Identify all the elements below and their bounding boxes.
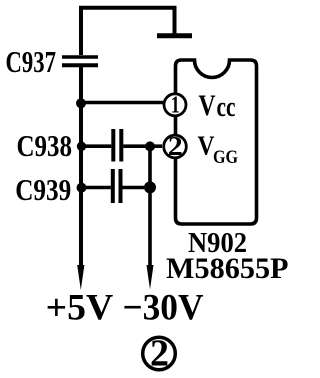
node: junction rail / C938 xyxy=(77,142,86,151)
svg-text:cc: cc xyxy=(217,91,236,123)
wire: -30V rail from C938 junction down to arrow xyxy=(148,146,152,266)
pin 2 circle xyxy=(164,135,187,158)
node: junction C939 wire / -30V rail xyxy=(144,181,156,193)
capacitor C938 xyxy=(81,129,162,162)
svg-text:GG: GG xyxy=(213,147,238,168)
svg-text:2: 2 xyxy=(168,131,183,161)
svg-text:−30V: −30V xyxy=(123,287,204,328)
svg-text:C939: C939 xyxy=(15,172,71,207)
label Vcc xyxy=(199,89,236,123)
svg-text:C938: C938 xyxy=(17,128,73,163)
svg-text:M58655P: M58655P xyxy=(166,252,289,285)
IC U1 N902 outline with notch xyxy=(176,60,257,224)
figure number circle 2 xyxy=(143,333,176,375)
node: junction of rail and Vcc wire xyxy=(76,98,86,108)
svg-text:C937: C937 xyxy=(6,44,57,79)
svg-text:V: V xyxy=(199,89,216,122)
capacitor C937 xyxy=(62,57,98,65)
arrow to +5V xyxy=(77,265,84,290)
svg-text:1: 1 xyxy=(171,93,180,119)
svg-text:2: 2 xyxy=(150,333,169,375)
wire: from rail junction to pin 1 xyxy=(81,101,163,105)
capacitor C939 xyxy=(81,169,150,203)
svg-text:+5V: +5V xyxy=(46,287,114,328)
ground xyxy=(157,33,192,38)
node: junction rail / C939 xyxy=(77,183,87,193)
pin 1 circle xyxy=(164,94,186,116)
wire: +5V rail from C937 down to arrow xyxy=(79,67,83,266)
label VGG xyxy=(198,131,239,168)
arrow to -30V xyxy=(147,265,154,290)
node: junction C938 wire / -30V rail xyxy=(145,141,155,151)
wire: +5V rail top segment and top horizontal run to ground drop xyxy=(81,8,175,55)
